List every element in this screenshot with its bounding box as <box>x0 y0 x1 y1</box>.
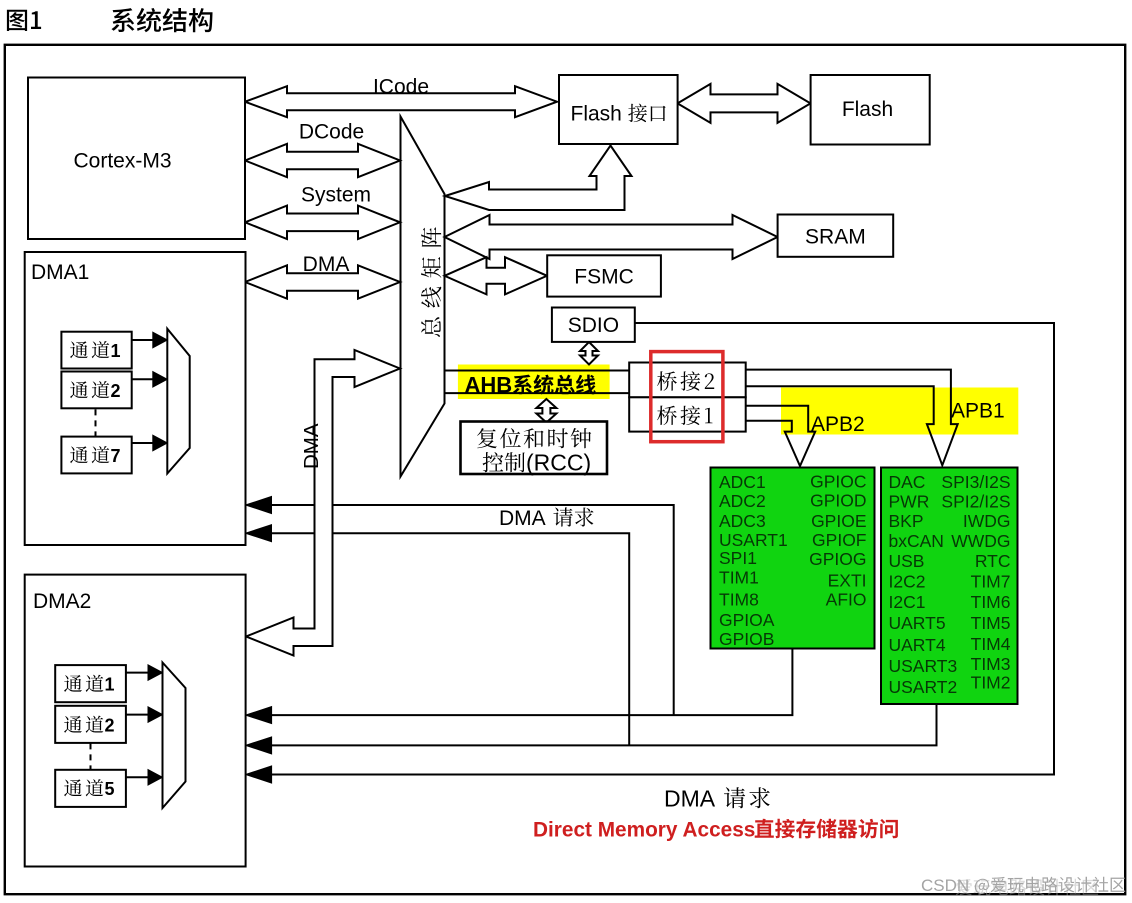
wire dashed DMA1 channels <box>95 409 97 436</box>
arrowhead DMA2 request 3 (SDIO) <box>246 766 272 783</box>
highlight red rectangle (bridges) <box>651 352 723 442</box>
arrow DCode <box>245 144 400 177</box>
arrow AHB-RCC <box>536 399 556 423</box>
svg-text:I2C1: I2C1 <box>889 592 926 612</box>
svg-text:DMA: DMA <box>300 423 323 469</box>
svg-text:TIM5: TIM5 <box>971 613 1011 633</box>
box DMA2 通道1 <box>55 665 126 702</box>
arrow SRAM <box>445 215 778 259</box>
bus matrix 总线矩阵 <box>401 117 445 477</box>
box bridge1 桥接1 <box>629 397 746 431</box>
svg-text:TIM2: TIM2 <box>971 673 1011 693</box>
box APB1 peripherals (green) <box>881 468 1018 705</box>
label 桥接2 <box>657 371 714 391</box>
label 控制 <box>483 452 525 472</box>
box FSMC <box>547 255 661 296</box>
svg-text:(RCC): (RCC) <box>526 450 591 476</box>
arrow DMA cortex <box>245 265 400 298</box>
svg-text:UART5: UART5 <box>889 613 946 633</box>
label 系统总线 <box>513 375 596 395</box>
svg-text:DAC: DAC <box>889 472 926 492</box>
box DMA1 <box>25 252 246 545</box>
svg-text:USART2: USART2 <box>889 677 958 697</box>
arrowhead DMA2 request 1 <box>246 707 272 724</box>
svg-text:DMA: DMA <box>499 507 546 530</box>
svg-text:DMA: DMA <box>664 786 716 812</box>
arrow FSMC <box>445 257 548 294</box>
wire bridge1 to APB2 arrow <box>746 406 816 466</box>
box Cortex-M3 <box>28 78 245 240</box>
svg-text:ADC3: ADC3 <box>719 511 766 531</box>
svg-text:AHB: AHB <box>465 373 513 398</box>
svg-text:7: 7 <box>111 446 121 466</box>
mux DMA1 (trapezoid) <box>167 329 189 474</box>
svg-text:USART1: USART1 <box>719 530 788 550</box>
svg-text:System: System <box>301 184 371 207</box>
label 请求 upper <box>553 507 593 526</box>
svg-text:1: 1 <box>105 675 115 695</box>
arrowhead DMA2 channel y714.6 <box>148 707 163 723</box>
label 接口 <box>628 104 666 123</box>
svg-text:GPIOB: GPIOB <box>719 629 774 649</box>
arrow System <box>245 206 400 239</box>
box DMA2 通道2 <box>55 706 126 743</box>
svg-text:USART3: USART3 <box>889 656 958 676</box>
annotation 直接存储器访问 <box>755 819 898 839</box>
label DMA1 通道 <box>70 341 109 358</box>
box DMA1 通道7 <box>61 437 131 474</box>
svg-text:ADC1: ADC1 <box>719 472 766 492</box>
label DMA1 通道 <box>70 381 109 398</box>
highlight APB yellow band <box>781 388 1018 435</box>
wire DMA2 channel connector y714.6 <box>126 714 148 716</box>
box APB2 peripherals (green) <box>711 468 875 649</box>
svg-text:SRAM: SRAM <box>805 226 866 249</box>
svg-text:PWR: PWR <box>889 492 930 512</box>
wire dashed DMA2 channels <box>90 743 92 769</box>
label 桥接1 <box>657 406 712 426</box>
svg-text:GPIOC: GPIOC <box>810 472 866 492</box>
svg-text:TIM6: TIM6 <box>971 592 1011 612</box>
arrowhead DMA1 request 1 <box>246 497 272 514</box>
svg-text:AFIO: AFIO <box>826 590 867 610</box>
arrowhead DMA1 channel y379.3 <box>153 372 168 388</box>
wire DMA1 channel connector y379.3 <box>132 378 153 380</box>
arrowhead DMA2 channel y777.3 <box>148 770 163 786</box>
svg-text:BKP: BKP <box>889 511 924 531</box>
svg-text:1: 1 <box>111 341 121 361</box>
svg-text:ADC2: ADC2 <box>719 491 766 511</box>
box flash interface <box>559 75 678 144</box>
arrowhead DMA1 request 2 <box>246 525 272 542</box>
svg-text:DMA: DMA <box>303 253 350 276</box>
arrowhead DMA1 channel y340 <box>153 332 168 348</box>
box DMA2 通道5 <box>55 770 126 807</box>
wire DMA1 channel connector y443 <box>132 442 153 444</box>
svg-text:APB2: APB2 <box>811 413 865 436</box>
svg-text:5: 5 <box>105 779 115 799</box>
box DMA1 通道1 <box>61 332 131 369</box>
box Flash <box>811 75 930 145</box>
arrowhead DMA2 channel y672.6 <box>148 665 163 681</box>
mux DMA2 (trapezoid) <box>163 663 186 809</box>
svg-text:TIM4: TIM4 <box>971 634 1011 654</box>
label DMA2 通道 <box>64 675 103 692</box>
label 请求 lower <box>724 787 770 808</box>
svg-text:Direct Memory Access: Direct Memory Access <box>533 819 755 842</box>
svg-text:SPI3/I2S: SPI3/I2S <box>941 472 1010 492</box>
title 图1 <box>7 10 41 31</box>
svg-text:Flash: Flash <box>571 103 622 126</box>
arrow DMA bus matrix-DMA2 (bent double) <box>246 350 400 656</box>
svg-text:ICode: ICode <box>373 76 429 99</box>
watermark overlay 爱玩电路设计社区 <box>956 879 1098 896</box>
svg-text:EXTI: EXTI <box>828 571 867 591</box>
title 系统结构 <box>112 8 213 32</box>
wire DMA1 channel connector y340 <box>132 339 153 341</box>
svg-text:bxCAN: bxCAN <box>889 531 944 551</box>
arrow flash interface - flash <box>678 84 811 123</box>
arrowhead DMA2 request 2 <box>246 737 272 754</box>
svg-text:Flash: Flash <box>842 98 893 121</box>
svg-text:TIM1: TIM1 <box>719 568 759 588</box>
wire APB2 peripherals DMA request <box>259 649 792 716</box>
svg-text:2: 2 <box>111 381 121 401</box>
wire APB1 peripherals DMA request <box>259 704 937 745</box>
box RCC 复位和时钟控制 <box>461 422 608 475</box>
box DMA1 通道2 <box>61 372 131 409</box>
highlight AHB yellow band <box>458 365 610 400</box>
svg-text:GPIOA: GPIOA <box>719 610 775 630</box>
wire AHB bus line upper <box>445 370 630 372</box>
wire SDIO to DMA2 request <box>259 323 1054 775</box>
svg-text:UART4: UART4 <box>889 635 946 655</box>
svg-text:Cortex-M3: Cortex-M3 <box>73 150 171 173</box>
wire DMA2 channel connector y672.6 <box>126 672 148 674</box>
svg-text:GPIOD: GPIOD <box>810 491 866 511</box>
box SRAM <box>778 215 894 257</box>
label DMA2 通道 <box>64 779 103 796</box>
svg-text:APB1: APB1 <box>951 400 1005 423</box>
wire DMA1 request 1 <box>259 505 674 715</box>
label DMA1 通道 <box>70 446 109 463</box>
svg-text:2: 2 <box>105 716 115 736</box>
svg-text:TIM3: TIM3 <box>971 654 1011 674</box>
svg-text:SPI2/I2S: SPI2/I2S <box>941 492 1010 512</box>
svg-text:I2C2: I2C2 <box>889 572 926 592</box>
box bridge2 桥接2 <box>629 363 746 398</box>
watermark @爱玩电路设计社区 <box>975 877 1125 894</box>
arrowhead DMA1 channel y443 <box>153 435 168 451</box>
svg-text:USB: USB <box>889 551 925 571</box>
svg-text:RTC: RTC <box>975 551 1011 571</box>
arrow ICode <box>245 86 557 117</box>
box DMA2 <box>25 575 246 867</box>
label DMA2 通道 <box>64 716 103 733</box>
svg-text:DCode: DCode <box>299 121 364 144</box>
svg-text:SPI1: SPI1 <box>719 548 757 568</box>
svg-text:FSMC: FSMC <box>574 266 634 289</box>
svg-text:GPIOE: GPIOE <box>811 511 866 531</box>
svg-text:DMA2: DMA2 <box>33 590 91 613</box>
svg-text:TIM7: TIM7 <box>971 572 1011 592</box>
wire AHB bus line lower <box>445 392 630 394</box>
wire DMA2 channel connector y777.3 <box>126 776 148 778</box>
svg-text:TIM8: TIM8 <box>719 590 759 610</box>
wire DMA1 request 2 <box>259 533 629 745</box>
svg-text:WWDG: WWDG <box>951 531 1010 551</box>
label 复位和时钟 <box>477 428 591 448</box>
svg-text:IWDG: IWDG <box>963 511 1011 531</box>
arrow flash interface - bus matrix (bent double) <box>445 146 632 211</box>
svg-text:GPIOF: GPIOF <box>812 530 866 550</box>
label 总线矩阵 (rotated) <box>421 227 441 337</box>
svg-text:GPIOG: GPIOG <box>809 549 866 569</box>
svg-text:SDIO: SDIO <box>568 314 619 337</box>
arrow SDIO-AHB <box>580 342 598 365</box>
wire bridge2 to APB1 arrow <box>746 370 958 466</box>
svg-text:DMA1: DMA1 <box>31 261 89 284</box>
box SDIO <box>552 308 635 342</box>
